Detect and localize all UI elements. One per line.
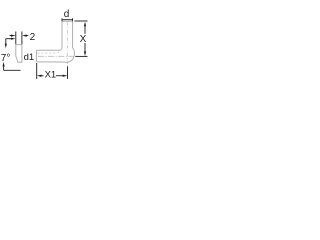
node centerline-horizontal xyxy=(38,55,79,57)
node vertical-pipe xyxy=(36,21,74,62)
node dim-X xyxy=(75,21,88,56)
node dim-d xyxy=(62,18,73,21)
node leader-7deg xyxy=(6,39,11,44)
svg-text:7°: 7° xyxy=(1,53,11,64)
node dim-2 xyxy=(10,32,29,45)
svg-text:2: 2 xyxy=(30,32,36,43)
node dim-X1 xyxy=(37,63,68,79)
svg-text:X: X xyxy=(80,34,87,45)
node detail-piece xyxy=(16,45,22,63)
svg-text:X1: X1 xyxy=(45,70,57,81)
node leader-7deg-lower xyxy=(4,67,21,71)
wire xyxy=(0,0,90,90)
svg-text:d1: d1 xyxy=(24,52,35,63)
node inner-bore-top xyxy=(37,48,62,53)
node centerline-vertical xyxy=(66,22,68,67)
svg-text:d: d xyxy=(64,9,70,20)
